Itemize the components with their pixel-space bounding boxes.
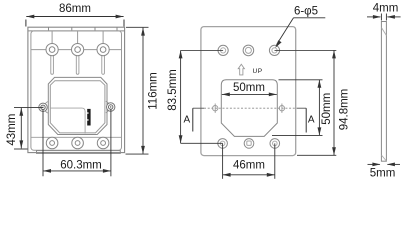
compartment divider — [50, 108, 85, 134]
svg-text:94.8mm: 94.8mm — [338, 89, 350, 131]
bottom terminal circles — [46, 137, 109, 149]
terminal circles top row — [46, 44, 109, 56]
svg-text:50mm: 50mm — [233, 82, 265, 94]
boss left — [39, 103, 47, 111]
svg-text:116mm: 116mm — [148, 72, 160, 110]
dim 86mm — [26, 15, 124, 27]
base band — [37, 151, 121, 154]
platform inner — [50, 81, 105, 133]
section marker left — [192, 108, 194, 131]
svg-text:4mm: 4mm — [373, 3, 399, 15]
hole row line — [181, 49, 337, 51]
dim 4mm — [367, 14, 401, 21]
face outline — [31, 31, 122, 150]
svg-text:50mm: 50mm — [321, 93, 333, 125]
terminal feed lines — [31, 31, 122, 50]
section marker right — [305, 108, 307, 132]
svg-text:5mm: 5mm — [370, 168, 396, 180]
cutout — [221, 80, 277, 137]
svg-text:83.5mm: 83.5mm — [167, 69, 179, 111]
bottom holes — [218, 139, 280, 149]
top band — [28, 27, 125, 31]
plate profile — [381, 22, 386, 162]
side cross holes — [213, 104, 285, 113]
svg-text:UP: UP — [253, 68, 263, 75]
UP arrow — [238, 64, 244, 75]
dim 5mm — [368, 163, 401, 167]
dim 50mm vertical — [272, 80, 323, 136]
platform outer — [48, 77, 107, 134]
panel outline — [201, 27, 296, 156]
svg-text:6-φ5: 6-φ5 — [294, 6, 318, 18]
dim 83.5mm — [179, 50, 223, 143]
dim 43mm — [14, 107, 43, 149]
boss cradles — [44, 102, 48, 114]
dim 50mm horizontal — [222, 93, 277, 97]
svg-text:60.3mm: 60.3mm — [60, 159, 102, 171]
boss right — [107, 103, 115, 111]
connector block — [87, 109, 90, 126]
dim 116mm — [126, 27, 149, 154]
dim 60.3mm — [43, 109, 111, 176]
svg-text:46mm: 46mm — [233, 160, 265, 172]
dim 46mm — [223, 143, 275, 178]
svg-text:A: A — [183, 115, 190, 126]
svg-text:86mm: 86mm — [59, 3, 91, 15]
wire slots — [51, 56, 105, 74]
top holes — [218, 45, 280, 56]
section line A-A — [193, 107, 306, 109]
body outer — [28, 27, 125, 152]
svg-text:43mm: 43mm — [6, 114, 18, 146]
dim 94.8mm — [297, 50, 336, 155]
svg-text:A: A — [308, 115, 315, 126]
